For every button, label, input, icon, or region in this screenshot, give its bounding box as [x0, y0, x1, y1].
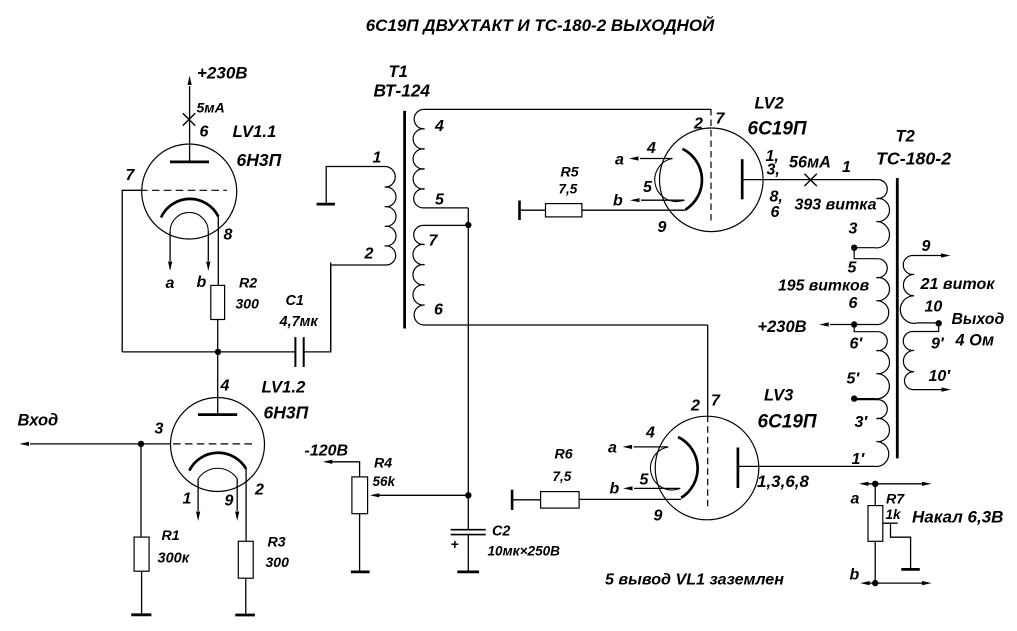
secondary winding T1 upper (pins 4-5) — [413, 109, 711, 208]
tube LV1.1 envelope — [142, 144, 237, 239]
svg-text:5: 5 — [435, 192, 445, 209]
terminal R6 — [511, 490, 514, 510]
svg-text:1: 1 — [842, 159, 851, 176]
node input junction — [138, 441, 144, 447]
primary T2 section 1-3 — [854, 180, 889, 248]
svg-text:b: b — [850, 567, 860, 584]
ground R7 wiper — [901, 568, 920, 571]
grid LV3 (dashed) — [707, 416, 709, 508]
svg-text:2: 2 — [364, 246, 374, 263]
svg-text:10′: 10′ — [929, 368, 952, 385]
svg-text:56мА: 56мА — [789, 154, 831, 172]
svg-text:9: 9 — [658, 219, 667, 236]
svg-text:1,3,6,8: 1,3,6,8 — [757, 472, 810, 491]
svg-text:Вход: Вход — [18, 412, 59, 430]
cathode LV1.2 — [189, 453, 246, 471]
node junction R2/C1 — [215, 349, 221, 355]
svg-text:6С19П: 6С19П — [758, 412, 817, 433]
wire R1 to ground — [141, 571, 143, 613]
svg-text:b: b — [197, 274, 207, 291]
heater lead 9 LV1.2 — [236, 479, 238, 511]
svg-text:4 Ом: 4 Ом — [955, 332, 995, 350]
ground R4 — [351, 571, 370, 574]
wire anode LV2 to T2 — [742, 179, 878, 181]
tube LV1.2 envelope — [171, 398, 265, 492]
svg-text:7,5: 7,5 — [559, 182, 578, 197]
resistor R5 — [546, 204, 582, 217]
wire T1 pin2 down — [330, 265, 332, 352]
wire anode LV3 to T2 — [738, 465, 742, 467]
wire T1 pin5 to tap — [467, 208, 469, 225]
wire R4 wiper — [378, 494, 468, 496]
wire R7 wiper — [883, 523, 911, 568]
svg-text:8: 8 — [224, 227, 233, 244]
wire C1 to T1 pin2 — [304, 263, 331, 352]
svg-text:R3: R3 — [268, 535, 286, 551]
cathode LV1.1 — [161, 199, 218, 218]
heater LV3 — [651, 447, 681, 490]
node T2 tap 5'-3' — [851, 395, 857, 401]
heater lead b LV2 — [641, 199, 685, 201]
svg-text:C2: C2 — [492, 524, 510, 540]
secondary T2 section 9'-10' — [903, 323, 944, 389]
wire T1 tap down to C2 node — [467, 225, 469, 530]
node heater bus b — [872, 580, 878, 586]
node heater bus a — [872, 481, 878, 487]
tube LV3 envelope — [655, 416, 759, 520]
anode plate LV1.1 — [170, 161, 209, 164]
cathode LV3 — [678, 437, 698, 498]
grid LV1.1 (dashed) — [140, 189, 227, 191]
wire R2 to node — [217, 320, 219, 352]
svg-text:4: 4 — [646, 140, 656, 157]
wire main bus to C1 — [122, 351, 295, 353]
svg-text:1k: 1k — [886, 507, 903, 522]
wire bus a to R7 — [874, 484, 876, 506]
svg-text:Выход: Выход — [952, 311, 1005, 328]
svg-text:LV1.2: LV1.2 — [262, 378, 307, 397]
wire grid LV1.2 stub — [141, 443, 171, 445]
svg-text:LV3: LV3 — [764, 387, 793, 405]
svg-text:6С19П: 6С19П — [748, 119, 807, 140]
svg-text:6: 6 — [771, 204, 780, 221]
svg-text:4,7мк: 4,7мк — [279, 314, 319, 330]
svg-text:6: 6 — [849, 295, 858, 312]
wire anode supply LV1.1 with arrow — [189, 86, 191, 162]
svg-text:6Н3П: 6Н3П — [264, 403, 309, 423]
node T2 tap 3-5 — [851, 245, 857, 251]
heater lead b LV1.1 — [207, 232, 209, 262]
svg-text:6С19П ДВУХТАКТ И ТС-180-2 ВЫХО: 6С19П ДВУХТАКТ И ТС-180-2 ВЫХОДНОЙ — [366, 15, 715, 35]
svg-text:6Н3П: 6Н3П — [237, 150, 282, 170]
svg-text:T1: T1 — [389, 63, 408, 81]
svg-text:195 витков: 195 витков — [778, 278, 870, 295]
svg-text:ВТ-124: ВТ-124 — [374, 81, 431, 101]
wire terminal to R5 — [520, 209, 546, 211]
wire terminal to R6 — [512, 499, 541, 501]
svg-text:2: 2 — [254, 482, 264, 499]
heater lead 1 LV1.2 — [197, 479, 199, 511]
svg-text:9: 9 — [922, 238, 931, 255]
current cross mark 56mA — [804, 174, 816, 186]
core T2 — [896, 178, 899, 458]
wire R4 top to -120V — [330, 462, 360, 477]
node T2 output tap — [936, 320, 942, 326]
svg-text:C1: C1 — [286, 293, 304, 309]
svg-text:6: 6 — [200, 124, 209, 141]
svg-text:R2: R2 — [239, 276, 257, 292]
svg-text:1: 1 — [183, 491, 192, 508]
svg-text:+: + — [451, 536, 459, 552]
primary winding T1 (pins 1-2) — [331, 167, 396, 266]
ground R3 — [235, 614, 255, 617]
wire R3 to ground — [245, 578, 247, 614]
heater lead b LV3 — [634, 487, 680, 489]
svg-text:ТС-180-2: ТС-180-2 — [876, 149, 951, 169]
secondary T2 section 9-10 — [900, 255, 938, 323]
resistor R6 — [541, 492, 580, 509]
svg-text:300: 300 — [236, 296, 260, 312]
core T1 — [403, 111, 406, 329]
wire heater bus b — [864, 582, 928, 584]
svg-text:LV1.1: LV1.1 — [233, 122, 277, 141]
wire +230V tap — [830, 324, 854, 326]
node T2 center tap +230V — [851, 321, 857, 327]
svg-text:4: 4 — [645, 425, 655, 442]
svg-text:8,: 8, — [770, 189, 783, 206]
grid LV1.2 (dashed) — [173, 443, 255, 445]
svg-text:56k: 56k — [373, 474, 397, 489]
svg-text:5: 5 — [643, 179, 653, 196]
heater lead a LV1.1 — [169, 232, 171, 262]
resistor R4 — [352, 477, 368, 514]
heater lead a LV3 — [634, 446, 669, 448]
capacitor C1 — [295, 337, 303, 367]
resistor R3 — [238, 541, 253, 578]
svg-text:R4: R4 — [374, 456, 392, 472]
svg-text:4: 4 — [434, 118, 444, 135]
svg-text:+230В: +230В — [758, 318, 807, 336]
svg-text:5′: 5′ — [847, 371, 861, 388]
svg-text:6: 6 — [434, 302, 443, 319]
primary T2 section 6'-5' — [854, 325, 889, 399]
svg-text:5мА: 5мА — [197, 100, 225, 116]
svg-text:a: a — [608, 440, 617, 457]
svg-text:+230В: +230В — [197, 64, 248, 83]
grid LV2 (dashed) — [710, 109, 712, 221]
secondary winding T1 lower (pins 7-6) — [413, 225, 708, 325]
wire input with arrow — [30, 443, 141, 445]
svg-text:1′: 1′ — [852, 451, 866, 468]
svg-text:R1: R1 — [162, 528, 180, 544]
svg-text:7: 7 — [126, 167, 136, 184]
svg-text:4: 4 — [220, 378, 230, 395]
svg-text:6′: 6′ — [850, 336, 864, 353]
svg-text:9: 9 — [654, 508, 663, 525]
primary T2 section 3'-1' — [742, 399, 889, 467]
current cross mark 5mA — [183, 113, 195, 125]
resistor R1 — [134, 537, 149, 571]
wire node to LV1.2 anode — [217, 352, 219, 415]
ground T1 pin1 — [317, 203, 335, 206]
svg-text:7: 7 — [711, 393, 721, 410]
svg-text:10мк×250В: 10мк×250В — [488, 544, 561, 559]
wire grid LV1.1 to left bus — [122, 190, 142, 352]
wire C2 to ground — [467, 535, 469, 571]
cathode LV2 — [682, 149, 702, 210]
tube LV2 envelope — [660, 128, 764, 232]
anode LV3 — [737, 448, 740, 489]
wire T1 pin6 to LV3 grid — [707, 325, 709, 416]
svg-text:3: 3 — [849, 221, 858, 238]
svg-text:300к: 300к — [158, 551, 190, 567]
svg-text:393 витка: 393 витка — [795, 197, 877, 214]
capacitor C2 — [451, 530, 486, 535]
wire R6 to cathode LV3 — [579, 498, 681, 500]
svg-text:9′: 9′ — [931, 336, 945, 353]
wire T2 pin9 with arrow — [913, 255, 944, 257]
svg-text:LV2: LV2 — [755, 95, 784, 113]
ground C2 — [457, 571, 479, 574]
svg-text:R7: R7 — [886, 492, 905, 508]
svg-text:b: b — [610, 481, 620, 498]
ground R1 — [131, 613, 151, 616]
svg-text:5: 5 — [848, 260, 858, 277]
svg-text:5 вывод VL1 заземлен: 5 вывод VL1 заземлен — [605, 571, 784, 589]
svg-text:10: 10 — [925, 299, 943, 316]
svg-text:300: 300 — [266, 554, 290, 570]
svg-text:7: 7 — [716, 111, 726, 128]
wire R5 to cathode LV2 — [582, 209, 686, 211]
wire cathode LV1.1 to R2 — [217, 217, 219, 286]
heater lead a LV2 — [640, 158, 673, 160]
svg-text:7: 7 — [429, 233, 439, 250]
resistor R2 — [211, 285, 225, 319]
wire R7 to bus b — [874, 541, 876, 583]
svg-text:-120В: -120В — [305, 443, 349, 460]
wire cathode LV1.2 to R3 — [245, 469, 247, 542]
heater LV2 — [655, 159, 685, 202]
wire R4 to ground — [359, 514, 361, 571]
svg-text:a: a — [851, 491, 860, 508]
svg-text:2: 2 — [690, 398, 700, 415]
svg-text:3,: 3, — [767, 162, 780, 179]
svg-text:R6: R6 — [555, 447, 573, 463]
node T1 center tap — [465, 222, 471, 228]
resistor R7 — [868, 506, 883, 542]
svg-text:9: 9 — [225, 493, 234, 510]
svg-text:a: a — [615, 152, 624, 169]
svg-text:21 виток: 21 виток — [920, 275, 996, 293]
primary T2 section 5-6 — [854, 248, 889, 325]
svg-text:R5: R5 — [561, 165, 580, 181]
wire node to R1 — [140, 444, 142, 537]
svg-text:5: 5 — [640, 472, 650, 489]
wire T1 pin1 to ground — [326, 167, 385, 204]
svg-text:7,5: 7,5 — [553, 469, 572, 484]
svg-text:Накал 6,3В: Накал 6,3В — [912, 508, 1003, 527]
svg-text:b: b — [613, 193, 623, 210]
svg-text:T2: T2 — [896, 128, 915, 146]
anode LV2 — [741, 159, 744, 199]
heater LV1.1 — [170, 212, 208, 231]
node C2 junction — [465, 492, 471, 498]
svg-text:3: 3 — [155, 421, 164, 438]
svg-text:1: 1 — [373, 150, 382, 167]
terminal R5 — [518, 201, 521, 221]
svg-text:3′: 3′ — [855, 414, 869, 431]
anode plate LV1.2 — [198, 413, 237, 416]
svg-text:a: a — [166, 275, 175, 292]
heater LV1.2 — [198, 468, 237, 479]
wire heater bus a — [863, 483, 928, 485]
